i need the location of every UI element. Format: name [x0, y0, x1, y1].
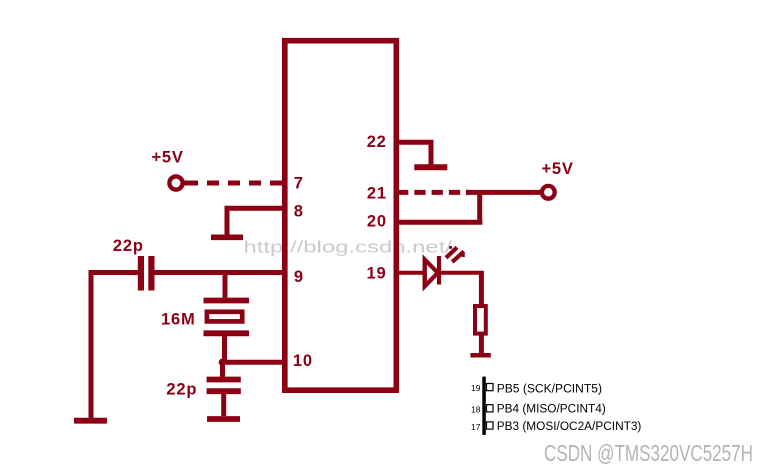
svg-text:21: 21	[367, 185, 387, 203]
svg-text:CSDN @TMS320VC5257H: CSDN @TMS320VC5257H	[544, 440, 753, 466]
wire crystal X1 to pin10 node	[222, 336, 227, 362]
svg-text:+5V: +5V	[152, 149, 184, 167]
crystal X1 bottom plate	[204, 330, 250, 336]
wire node to capacitor C2	[220, 362, 225, 377]
crystal X1 body	[207, 312, 242, 322]
svg-text:http://blog.csdn.net/: http://blog.csdn.net/	[244, 239, 453, 257]
wire C2 to ground	[221, 394, 226, 416]
wire C1 left to ground	[91, 273, 139, 419]
legend pin 18 box	[487, 405, 494, 412]
LED ray dot 1	[449, 246, 452, 249]
LED D1 cathode bar	[437, 256, 441, 285]
svg-text:PB4 (MISO/PCINT4): PB4 (MISO/PCINT4)	[497, 402, 606, 416]
svg-text:19: 19	[471, 383, 481, 393]
svg-text:22p: 22p	[166, 380, 197, 398]
crystal X1 top plate	[204, 298, 250, 304]
LED D1 anode bar	[423, 258, 427, 287]
wire LED D1 cathode to corner	[440, 271, 483, 275]
wire pin8 to ground	[227, 208, 284, 235]
legend pin 19 box	[487, 384, 494, 391]
svg-text:22p: 22p	[113, 237, 144, 255]
capacitor C1 plate right	[148, 256, 154, 291]
LED D1 light ray 2	[452, 252, 464, 262]
power +5V terminal (right)	[542, 186, 555, 199]
svg-text:+5V: +5V	[542, 160, 574, 178]
wire pin10	[222, 360, 284, 365]
LED D1 light ray 1	[446, 247, 457, 257]
svg-text:9: 9	[294, 268, 304, 286]
wire pin21 dashed	[397, 190, 470, 195]
wire pin9 node to crystal X1	[223, 273, 228, 299]
svg-text:PB3 (MOSI/OC2A/PCINT3): PB3 (MOSI/OC2A/PCINT3)	[497, 419, 642, 433]
svg-text:PB5 (SCK/PCINT5): PB5 (SCK/PCINT5)	[497, 381, 602, 395]
wire pin20	[396, 220, 482, 225]
ground bar (left branch)	[74, 418, 107, 424]
svg-text:18: 18	[471, 405, 481, 415]
svg-text:22: 22	[367, 133, 387, 151]
wire R1 to ground	[479, 335, 484, 353]
capacitor C1 plate left	[138, 256, 144, 291]
svg-text:16M: 16M	[161, 311, 196, 329]
svg-text:17: 17	[471, 422, 481, 432]
ground bar (C2)	[207, 416, 240, 422]
IC U1 body	[285, 41, 397, 391]
ground bar (pin8)	[211, 235, 243, 241]
wire pin19 to LED D1	[396, 271, 423, 275]
svg-text:7: 7	[294, 174, 304, 192]
wire pin22 to ground	[396, 142, 431, 165]
svg-text:19: 19	[367, 264, 387, 282]
legend vertical bar	[482, 377, 486, 435]
ground bar (pin22)	[414, 164, 447, 170]
LED D1 triangle	[425, 260, 438, 287]
svg-text:10: 10	[293, 352, 313, 370]
wire pin7 dashed to +5V	[184, 181, 282, 186]
junction dot at pin10 node	[219, 359, 227, 367]
resistor R1 body	[475, 306, 486, 334]
wire pin9 to capacitor C1	[153, 270, 284, 275]
ground bar (R1)	[470, 353, 490, 358]
legend pin 17 box	[487, 422, 494, 429]
power +5V terminal (left)	[169, 176, 182, 189]
LED ray dot 2	[462, 254, 465, 257]
svg-text:8: 8	[294, 202, 304, 220]
wire stub at left +5V terminal	[183, 181, 196, 186]
capacitor C2 top plate	[207, 377, 241, 383]
wire junction down to pin20	[477, 192, 482, 222]
wire corner down to resistor R1	[479, 271, 484, 304]
svg-text:20: 20	[367, 213, 387, 231]
wire to +5V terminal (right)	[466, 190, 540, 195]
capacitor C2 bottom plate	[207, 388, 241, 394]
